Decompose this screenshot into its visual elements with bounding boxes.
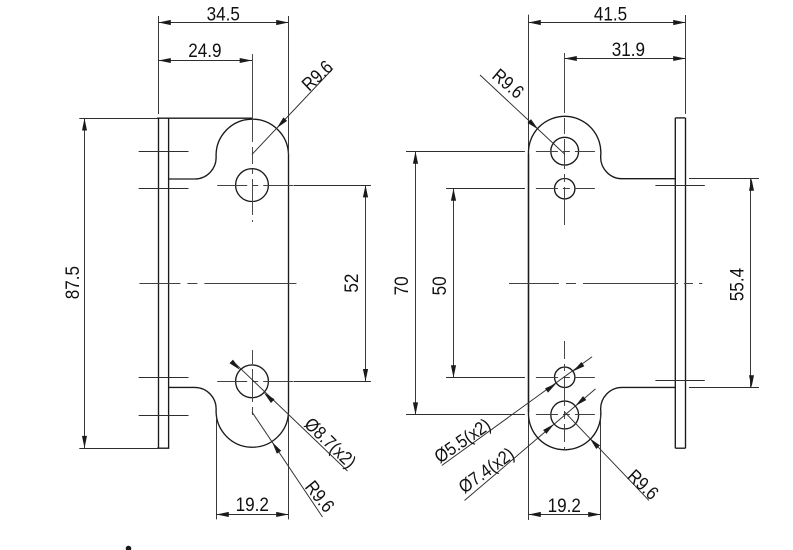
dim 41.5 extension right [685,15,687,114]
right big hole bottom [551,401,579,429]
right small hole bottom h-centerline [536,377,595,379]
svg-text:24.9: 24.9 [188,40,221,61]
dim 52 line [365,185,367,381]
dim 87.5 line [84,118,86,448]
left part hole top [236,169,269,202]
left hole bottom h-centerline [217,381,294,383]
dim 50 line [453,189,455,378]
dim 55.4 extension top [689,178,759,180]
svg-text:50: 50 [429,276,450,295]
svg-text:19.2: 19.2 [236,494,269,515]
left part flange left line [158,118,160,448]
dim 50 extension bottom [446,377,525,379]
dim 34.5 line [159,22,289,24]
right big hole top h-centerline [536,151,595,153]
leader dia8.7 left [234,362,348,471]
left part mid centerline [139,283,302,285]
leader dia5.5 right [442,357,592,466]
dim 19.2 extension right [288,412,290,520]
dim 41.5 line [529,22,686,24]
right part bend line 2 [655,380,704,382]
left part hole bottom [236,365,269,398]
dim 70 line [415,151,417,415]
right part mid centerline [509,283,702,285]
svg-text:41.5: 41.5 [594,4,627,25]
left hole top h-centerline [217,185,294,187]
svg-text:Ø8.7(x2): Ø8.7(x2) [300,413,360,472]
right holes bottom v-centerline [564,341,566,450]
left part flange right line [168,118,170,448]
dim 55.4 extension bottom [689,387,759,389]
leader R9.6 right top [480,75,565,154]
svg-text:R9.6: R9.6 [297,56,337,95]
svg-text:70: 70 [391,276,412,295]
leader R9.6 left top [252,69,333,155]
dim 50 extension top [446,188,525,190]
dim 34.5 extension right [288,16,290,154]
svg-text:52: 52 [341,274,362,293]
dim 34.5 extension left [158,16,160,114]
svg-text:31.9: 31.9 [612,39,645,60]
dim 31.9 line [565,58,686,60]
dim 70 extension bottom [406,414,525,416]
dim 19.2 extension right2 [600,413,602,520]
svg-text:R9.6: R9.6 [488,64,528,103]
leader R9.6 right bottom [565,412,649,500]
svg-text:R9.6: R9.6 [623,465,663,504]
svg-text:87.5: 87.5 [62,266,83,299]
right small hole top h-centerline [536,188,595,190]
left hole bottom v-centerline [252,350,254,415]
right small hole top [555,179,575,199]
svg-text:55.4: 55.4 [727,268,748,301]
leader R9.6 left bottom [252,412,323,517]
svg-text:34.5: 34.5 [207,4,240,25]
dim 19.2 line right [529,514,601,516]
left part bottom edge [79,448,157,450]
svg-text:19.2: 19.2 [548,495,581,516]
right holes top v-centerline [564,53,566,225]
left part ear outline [169,119,289,447]
right small hole bottom [555,367,575,387]
left part bend line 1 [139,151,189,153]
right part left edge [528,15,530,155]
dim 19.2 extension left [216,417,218,519]
right big hole bottom h-centerline [536,414,595,416]
leader dia7.4 right [465,389,596,501]
dim 52 extension bottom [294,381,371,383]
svg-text:R9.6: R9.6 [301,476,339,516]
left part top edge [79,118,157,120]
left part bend line 4 [139,415,189,417]
left part bend line 2 [139,188,189,190]
right part flange [674,118,676,448]
dim 70 extension top [406,151,525,153]
right part bend line 1 [655,185,704,187]
dim 24.9 line [159,60,253,62]
right part ear outline [528,116,675,449]
dim 19.2 line [216,514,288,516]
sheet corner mark [126,546,132,550]
left part bend line 3 [139,377,189,379]
dim 55.4 line [750,179,752,388]
dim 52 extension top [294,185,371,187]
right big hole top [551,137,579,165]
left hole top v-centerline [252,54,254,222]
